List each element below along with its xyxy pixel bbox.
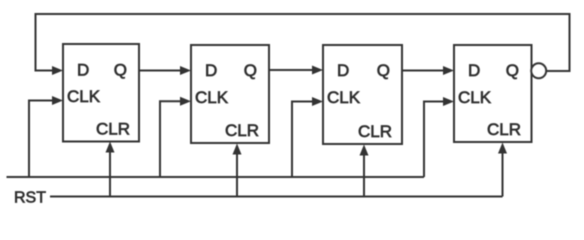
svg-text:D: D bbox=[337, 61, 349, 80]
wire: FF2 Q to FF3 D bbox=[269, 69, 314, 71]
svg-text:CLR: CLR bbox=[96, 120, 130, 139]
wire: CLK bus bbox=[7, 176, 425, 178]
svg-text:RST: RST bbox=[14, 190, 46, 207]
wire: RST riser to FF2 CLR bbox=[236, 152, 238, 197]
D flip-flop FF2 bbox=[191, 45, 269, 143]
svg-text:Q: Q bbox=[377, 61, 390, 80]
svg-text:CLK: CLK bbox=[195, 88, 229, 107]
wire: FF3 Q to FF4 D bbox=[402, 70, 445, 72]
svg-text:CLK: CLK bbox=[327, 88, 361, 107]
D flip-flop FF4 bbox=[454, 45, 532, 142]
svg-text:D: D bbox=[468, 61, 480, 80]
wire: RST riser to FF1 CLR bbox=[109, 150, 111, 197]
svg-text:D: D bbox=[77, 61, 89, 80]
wire: CLK riser to FF2 bbox=[160, 101, 182, 177]
svg-text:CLR: CLR bbox=[225, 121, 259, 140]
wire: RST riser to FF4 CLR bbox=[502, 151, 504, 197]
D flip-flop FF1 bbox=[63, 44, 139, 142]
svg-text:Q: Q bbox=[506, 61, 519, 80]
D flip-flop FF3 bbox=[323, 45, 402, 144]
wire: CLK riser to FF4 bbox=[424, 102, 445, 178]
wire: RST line bbox=[50, 196, 503, 198]
wire: CLK riser to FF3 bbox=[292, 102, 314, 178]
svg-text:Q: Q bbox=[114, 61, 127, 80]
svg-text:CLR: CLR bbox=[358, 122, 392, 141]
inversion bubble on FF4 Q output bbox=[531, 63, 546, 78]
wire: RST riser to FF3 CLR bbox=[363, 153, 365, 197]
wire: feedback from inverted Q of FF4 to D of FF1 bbox=[36, 14, 570, 71]
svg-text:D: D bbox=[205, 61, 217, 80]
svg-text:Q: Q bbox=[244, 61, 257, 80]
wire: CLK riser to FF1 bbox=[29, 101, 54, 178]
svg-text:CLK: CLK bbox=[458, 88, 492, 107]
wire: FF1 Q to FF2 D bbox=[139, 70, 182, 72]
svg-text:CLK: CLK bbox=[67, 87, 101, 106]
svg-text:CLR: CLR bbox=[487, 120, 521, 139]
